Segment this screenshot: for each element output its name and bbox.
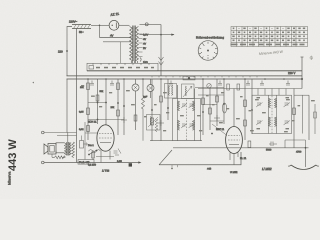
cap block on AVC line bbox=[129, 163, 132, 166]
IF rail G bbox=[158, 79, 164, 141]
svg-text:220 V: 220 V bbox=[288, 71, 295, 75]
svg-text:50~: 50~ bbox=[79, 30, 84, 34]
mid rail J bbox=[209, 88, 212, 130]
chassis ground bbox=[291, 165, 316, 170]
wire drop to bus bbox=[160, 25, 162, 76]
stray mark bbox=[33, 82, 35, 84]
rectifier tube AZ11 bbox=[109, 12, 119, 30]
wire T1 feeds bbox=[178, 85, 195, 99]
svg-text:Röhrenbestückung: Röhrenbestückung bbox=[196, 36, 224, 40]
svg-text:Li T32: Li T32 bbox=[102, 170, 110, 173]
AF coupling line bbox=[173, 147, 309, 149]
svg-text:443: 443 bbox=[207, 168, 212, 171]
tie wires bbox=[88, 103, 124, 120]
wire heater drop bbox=[100, 25, 132, 42]
RF rail C to tube bbox=[105, 79, 107, 125]
tie wires right bbox=[203, 105, 224, 122]
coil cluster marks bbox=[114, 149, 122, 156]
right box top bbox=[294, 94, 309, 96]
output transformer bbox=[56, 133, 71, 156]
RF coil box 2 bbox=[182, 84, 195, 99]
tie line mid bbox=[195, 87, 224, 89]
antenna coupling marks bbox=[159, 57, 164, 65]
svg-text:443 W: 443 W bbox=[7, 139, 19, 171]
wire mains left leg bbox=[67, 27, 72, 76]
grid squiggle wire bbox=[89, 150, 101, 153]
cathode resistor V1 bbox=[92, 150, 95, 160]
junction bbox=[305, 147, 307, 149]
arrowhead bbox=[138, 161, 141, 163]
right rail O bbox=[293, 89, 295, 148]
right extra rails bbox=[303, 95, 316, 134]
hum-bucking resistor bbox=[72, 142, 75, 158]
bottom bus stubs bbox=[172, 165, 178, 168]
svg-text:EBF 11: EBF 11 bbox=[216, 128, 225, 131]
tone cap link bbox=[266, 140, 306, 152]
svg-text:8μF: 8μF bbox=[143, 96, 148, 99]
node junction bbox=[99, 25, 101, 27]
svg-text:4V: 4V bbox=[143, 38, 146, 41]
transformer secondary taps bbox=[139, 33, 149, 56]
bus line mid bbox=[67, 75, 303, 77]
pickup terminal bbox=[42, 131, 45, 134]
svg-text:U M32: U M32 bbox=[230, 171, 238, 174]
mid rail N bbox=[251, 79, 253, 134]
oscillator coil box bbox=[147, 115, 161, 131]
switch bbox=[88, 150, 97, 156]
left rail 1 bbox=[66, 79, 68, 133]
svg-text:4700: 4700 bbox=[296, 150, 302, 153]
node junction bbox=[160, 34, 162, 36]
wire to chassis bbox=[305, 148, 307, 167]
pin bar bbox=[96, 156, 114, 158]
IF rail F bbox=[151, 79, 154, 141]
mains line 220V right bbox=[288, 57, 304, 89]
voice coil resistor bbox=[55, 156, 66, 159]
value bracket bbox=[140, 58, 141, 62]
transformer bottom leads bbox=[132, 61, 138, 63]
wire T1 bottom bbox=[150, 140, 202, 142]
svg-text:4V: 4V bbox=[143, 42, 146, 45]
resistor on rail O bbox=[293, 108, 296, 115]
IF transformer T1 bbox=[173, 99, 201, 141]
svg-text:Minerva: Minerva bbox=[8, 172, 12, 185]
filter electrolytic capacitor C2 bbox=[143, 79, 154, 99]
RF rail E bbox=[121, 79, 127, 135]
svg-text:4V: 4V bbox=[110, 34, 114, 38]
potentiometer bbox=[80, 136, 88, 149]
filter electrolytic capacitor C1 bbox=[132, 79, 139, 130]
tube socket layout diagram bbox=[196, 36, 224, 61]
bus line B+ upper bbox=[87, 70, 302, 72]
mid rail M bbox=[244, 79, 247, 140]
svg-text:220V~: 220V~ bbox=[69, 20, 78, 24]
value label smudges bbox=[81, 85, 315, 132]
bottom AVC line bbox=[44, 162, 140, 164]
svg-text:Li M32: Li M32 bbox=[262, 167, 272, 171]
RF rail A with resistors bbox=[79, 79, 89, 140]
RF rail B bbox=[96, 79, 104, 124]
name plate bbox=[78, 160, 94, 165]
output pentode tube V3 bbox=[216, 89, 247, 165]
svg-text:Dm 1: Dm 1 bbox=[88, 144, 94, 147]
rail to plate bbox=[84, 122, 86, 160]
wire mains to rectifier bbox=[91, 24, 109, 26]
left rail 2 full bbox=[76, 29, 78, 163]
wire bottom bus to cathode bbox=[159, 152, 241, 165]
IF rail H bbox=[167, 79, 169, 120]
wire grid tie bbox=[85, 132, 97, 134]
svg-text:2V: 2V bbox=[143, 47, 146, 50]
right rail P bbox=[308, 95, 310, 140]
svg-text:0,1 100: 0,1 100 bbox=[88, 164, 97, 167]
pill resistor bbox=[222, 103, 226, 113]
coupling cap row bbox=[207, 84, 211, 88]
svg-text:0,05: 0,05 bbox=[117, 160, 122, 163]
wire antenna feed bbox=[140, 34, 175, 36]
power transformer bbox=[130, 26, 139, 64]
loudspeaker bbox=[44, 144, 56, 155]
top cap row symbols bbox=[90, 81, 290, 86]
IF transformer T2 bbox=[252, 95, 292, 133]
RF rail D bbox=[111, 79, 120, 135]
mid rail K bbox=[214, 79, 220, 126]
mains voltage selector panel bbox=[87, 63, 158, 71]
svg-text:ECH 11: ECH 11 bbox=[88, 121, 97, 124]
svg-text:0,02: 0,02 bbox=[79, 128, 84, 131]
wire HT with fuse bbox=[140, 23, 161, 26]
wire rectifier to transformer bbox=[119, 24, 130, 26]
junction dots on bus bbox=[87, 78, 285, 80]
tie line mid2 bbox=[198, 94, 224, 96]
mid rail L bbox=[223, 79, 225, 124]
wire T2 feeds bbox=[258, 89, 286, 96]
mains dropper bar bbox=[69, 20, 91, 34]
antenna coil box bbox=[165, 84, 177, 99]
grid diagonal bbox=[212, 124, 227, 136]
pickup wire 2 bbox=[57, 135, 77, 137]
arrowhead bbox=[171, 34, 174, 36]
node tap 220 bbox=[66, 50, 68, 52]
triode-hexode tube V1 bbox=[88, 121, 114, 163]
pickup wire bbox=[44, 132, 76, 134]
resistor zigzag mid bbox=[155, 119, 158, 132]
resistor on AF line bbox=[248, 141, 251, 148]
choke resistor bbox=[142, 79, 145, 141]
svg-text:5000: 5000 bbox=[266, 149, 272, 152]
mid rail I bbox=[202, 79, 205, 135]
bus line lower bbox=[67, 78, 303, 80]
bus ticks bbox=[152, 76, 257, 78]
svg-text:0,05: 0,05 bbox=[79, 111, 84, 114]
speaker terminal bbox=[42, 161, 45, 164]
speaker leads bbox=[52, 154, 65, 157]
switch block on bus bbox=[183, 76, 195, 80]
svg-text:220: 220 bbox=[58, 49, 63, 53]
ground bus right bbox=[198, 88, 302, 90]
table cell figures bbox=[231, 28, 306, 46]
screw mark bbox=[310, 56, 313, 60]
voltage data table bbox=[231, 27, 308, 47]
wire heater to selector bbox=[120, 42, 122, 64]
wire diagonal grid lead bbox=[159, 150, 172, 165]
